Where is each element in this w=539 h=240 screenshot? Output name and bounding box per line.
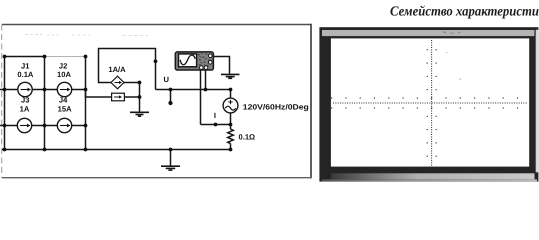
- svg-text:0.1Ω: 0.1Ω: [239, 132, 256, 141]
- svg-text:J3: J3: [21, 95, 29, 104]
- svg-text:1A: 1A: [20, 104, 30, 113]
- svg-text:10A: 10A: [57, 70, 71, 79]
- svg-text:Семейство характеристи: Семейство характеристи: [390, 3, 539, 18]
- svg-text:J4: J4: [59, 95, 68, 104]
- svg-text:120V/60Hz/0Deg: 120V/60Hz/0Deg: [243, 103, 309, 112]
- svg-text:I: I: [214, 111, 216, 120]
- svg-text:1A/A: 1A/A: [108, 65, 126, 74]
- svg-text:U: U: [164, 75, 170, 84]
- svg-text:0.1A: 0.1A: [17, 70, 34, 79]
- svg-text:15A: 15A: [58, 104, 72, 113]
